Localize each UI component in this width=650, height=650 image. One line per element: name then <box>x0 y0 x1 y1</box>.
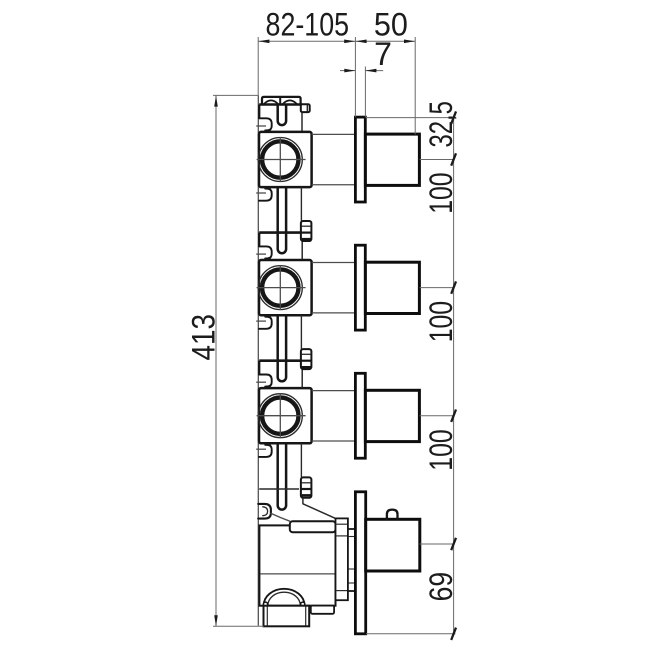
screw tab on V1 <box>301 104 310 112</box>
thermostat body V4 <box>258 489 335 606</box>
valve unit V1 body <box>256 105 311 201</box>
cartridge neck lines V1 <box>312 134 355 184</box>
screw stud above V3 <box>301 315 312 369</box>
dimension 100 middle <box>423 301 459 342</box>
mounting rail slot above V3 <box>278 315 286 381</box>
svg-text:100: 100 <box>423 172 459 213</box>
cartridge neck V4 <box>336 518 356 600</box>
wall flange plate V4 <box>355 492 365 634</box>
screw stud above V4 <box>301 443 312 498</box>
svg-text:7: 7 <box>374 36 392 72</box>
handle knob V1 <box>365 134 419 185</box>
valve unit V3 body <box>256 361 311 457</box>
svg-text:32,5: 32,5 <box>423 101 459 148</box>
side tab V4 <box>311 606 334 614</box>
svg-text:100: 100 <box>423 429 459 470</box>
dimension 69 <box>423 572 459 602</box>
valve unit V2 body <box>256 233 311 329</box>
cartridge neck lines V3 <box>312 391 355 441</box>
dimension 82-105 horizontal <box>258 6 415 134</box>
wire back-plane vertical line <box>257 95 259 625</box>
mounting rail slot above V2 <box>278 187 286 253</box>
dimension 100 upper <box>423 172 459 213</box>
bottom outlet foot V4 <box>264 606 310 627</box>
cap crown on V1 <box>262 97 301 105</box>
dimension column right <box>366 111 456 640</box>
handle knob V3 <box>365 390 419 441</box>
screw stud above V2 <box>301 187 312 241</box>
svg-text:100: 100 <box>423 301 459 342</box>
mounting rail slot above V1 <box>278 105 286 126</box>
svg-text:82-105: 82-105 <box>266 6 350 42</box>
dimension 32,5 <box>423 101 459 148</box>
thermostat handle knob V4 <box>366 510 420 571</box>
mounting rail slot above V4 <box>278 443 286 509</box>
dimension 100 lower <box>423 429 459 470</box>
svg-text:69: 69 <box>423 572 459 602</box>
dimension 7 flange thickness <box>340 36 392 117</box>
handle knob V2 <box>365 262 419 313</box>
wall flange plate V3 <box>355 373 365 458</box>
dimension 50 horizontal <box>356 7 415 44</box>
wall flange plate V2 <box>355 245 365 330</box>
cartridge neck lines V2 <box>312 263 355 313</box>
wall flange plate V1 <box>355 117 365 202</box>
svg-text:413: 413 <box>186 314 222 361</box>
dimension 413 overall height <box>186 95 264 626</box>
